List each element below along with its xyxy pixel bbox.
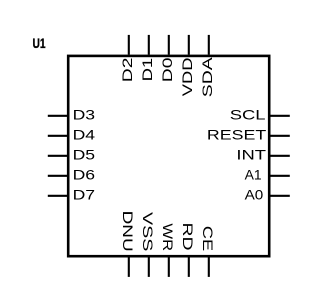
svg-text:U1: U1 bbox=[33, 36, 46, 52]
svg-text:D3: D3 bbox=[73, 108, 95, 123]
svg-text:VDD: VDD bbox=[181, 58, 196, 97]
svg-text:RESET: RESET bbox=[207, 128, 267, 142]
svg-text:D7: D7 bbox=[73, 188, 95, 203]
svg-text:A1: A1 bbox=[245, 168, 262, 183]
svg-text:D1: D1 bbox=[141, 58, 156, 82]
svg-text:SCL: SCL bbox=[230, 108, 266, 123]
svg-text:D4: D4 bbox=[73, 128, 96, 143]
svg-text:A0: A0 bbox=[245, 188, 264, 203]
svg-text:D0: D0 bbox=[160, 58, 175, 83]
svg-text:D5: D5 bbox=[73, 148, 96, 163]
svg-text:D6: D6 bbox=[73, 168, 95, 183]
svg-text:SDA: SDA bbox=[200, 56, 215, 97]
svg-text:DNU: DNU bbox=[120, 211, 135, 252]
svg-text:INT: INT bbox=[236, 148, 266, 163]
svg-text:D2: D2 bbox=[120, 58, 135, 83]
svg-text:CE: CE bbox=[200, 226, 214, 251]
svg-text:VSS: VSS bbox=[140, 212, 155, 251]
svg-text:WR: WR bbox=[159, 223, 174, 251]
svg-text:RD: RD bbox=[180, 223, 195, 251]
